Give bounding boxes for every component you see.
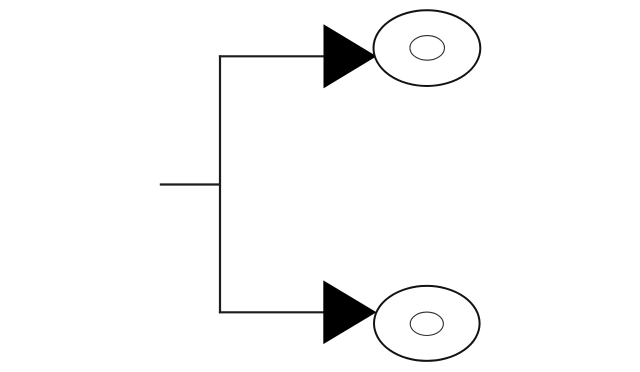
speaker inner ellipse bottom: [410, 312, 443, 335]
wire top branch: [219, 55, 325, 57]
wire input stub: [160, 183, 220, 185]
wire bottom branch: [219, 311, 325, 313]
speaker outer ellipse bottom: [374, 286, 480, 361]
amplifier triangle bottom: [324, 281, 376, 343]
wire vertical bus: [219, 55, 221, 313]
amplifier triangle top: [324, 25, 376, 87]
speaker outer ellipse top: [374, 10, 481, 86]
speaker inner ellipse top: [410, 36, 445, 61]
